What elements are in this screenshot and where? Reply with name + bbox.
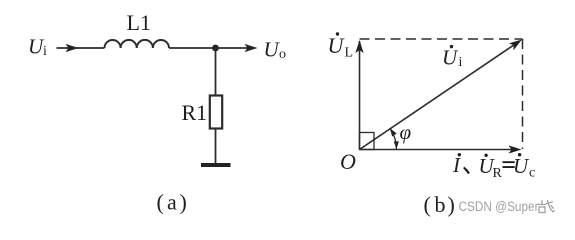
ground	[201, 163, 231, 167]
svg-text:U: U	[442, 46, 459, 70]
wire input with direction arrow	[57, 44, 105, 52]
svg-text:c: c	[529, 166, 535, 181]
label Ui with dot (phasor)	[442, 45, 463, 70]
svg-text:(: (	[424, 192, 431, 217]
dashed top edge	[360, 38, 523, 40]
resistor R1	[182, 96, 223, 129]
wire junction down to resistor	[215, 48, 217, 96]
ideographic comma	[463, 167, 470, 175]
svg-text:φ: φ	[400, 120, 412, 144]
svg-text:CSDN @Super: CSDN @Super	[459, 199, 539, 214]
svg-text:R: R	[493, 166, 503, 181]
label Uo (output voltage)	[264, 37, 287, 62]
svg-text:(: (	[157, 190, 164, 215]
svg-text:U: U	[328, 33, 346, 58]
svg-text:U: U	[264, 37, 281, 61]
svg-text:O: O	[340, 149, 356, 174]
label I, UR = Uc	[452, 153, 535, 181]
svg-text:i: i	[43, 44, 47, 59]
svg-text:R1: R1	[182, 100, 208, 125]
watermark CSDN @Super+CJK	[459, 199, 555, 214]
label Ui (input voltage)	[28, 35, 47, 60]
node junction dot	[212, 45, 219, 52]
wire inductor to junction	[169, 47, 216, 49]
svg-text:L1: L1	[127, 10, 151, 35]
label (a)	[157, 190, 187, 215]
phasor vector UL (vertical axis arrow)	[355, 40, 363, 150]
label (b)	[424, 192, 455, 217]
svg-text:): )	[448, 192, 455, 217]
svg-text:i: i	[459, 55, 463, 70]
phasor vector Ui (diagonal arrow)	[360, 40, 523, 150]
svg-text:o: o	[279, 47, 286, 62]
svg-text:L: L	[345, 46, 354, 61]
inductor L1	[105, 10, 170, 48]
wire resistor to ground	[215, 129, 217, 164]
phasor horizontal axis arrow	[360, 145, 522, 153]
svg-text:b: b	[435, 192, 446, 217]
label UL with dot	[328, 32, 354, 60]
svg-text:I: I	[452, 153, 461, 177]
right-angle square at origin	[360, 133, 375, 150]
wire junction to output arrow	[216, 44, 258, 52]
svg-text:): )	[180, 190, 187, 215]
svg-text:U: U	[513, 154, 530, 178]
angle arc phi with arrowheads	[390, 128, 399, 149]
svg-text:a: a	[167, 190, 177, 215]
dashed right edge	[522, 39, 524, 149]
